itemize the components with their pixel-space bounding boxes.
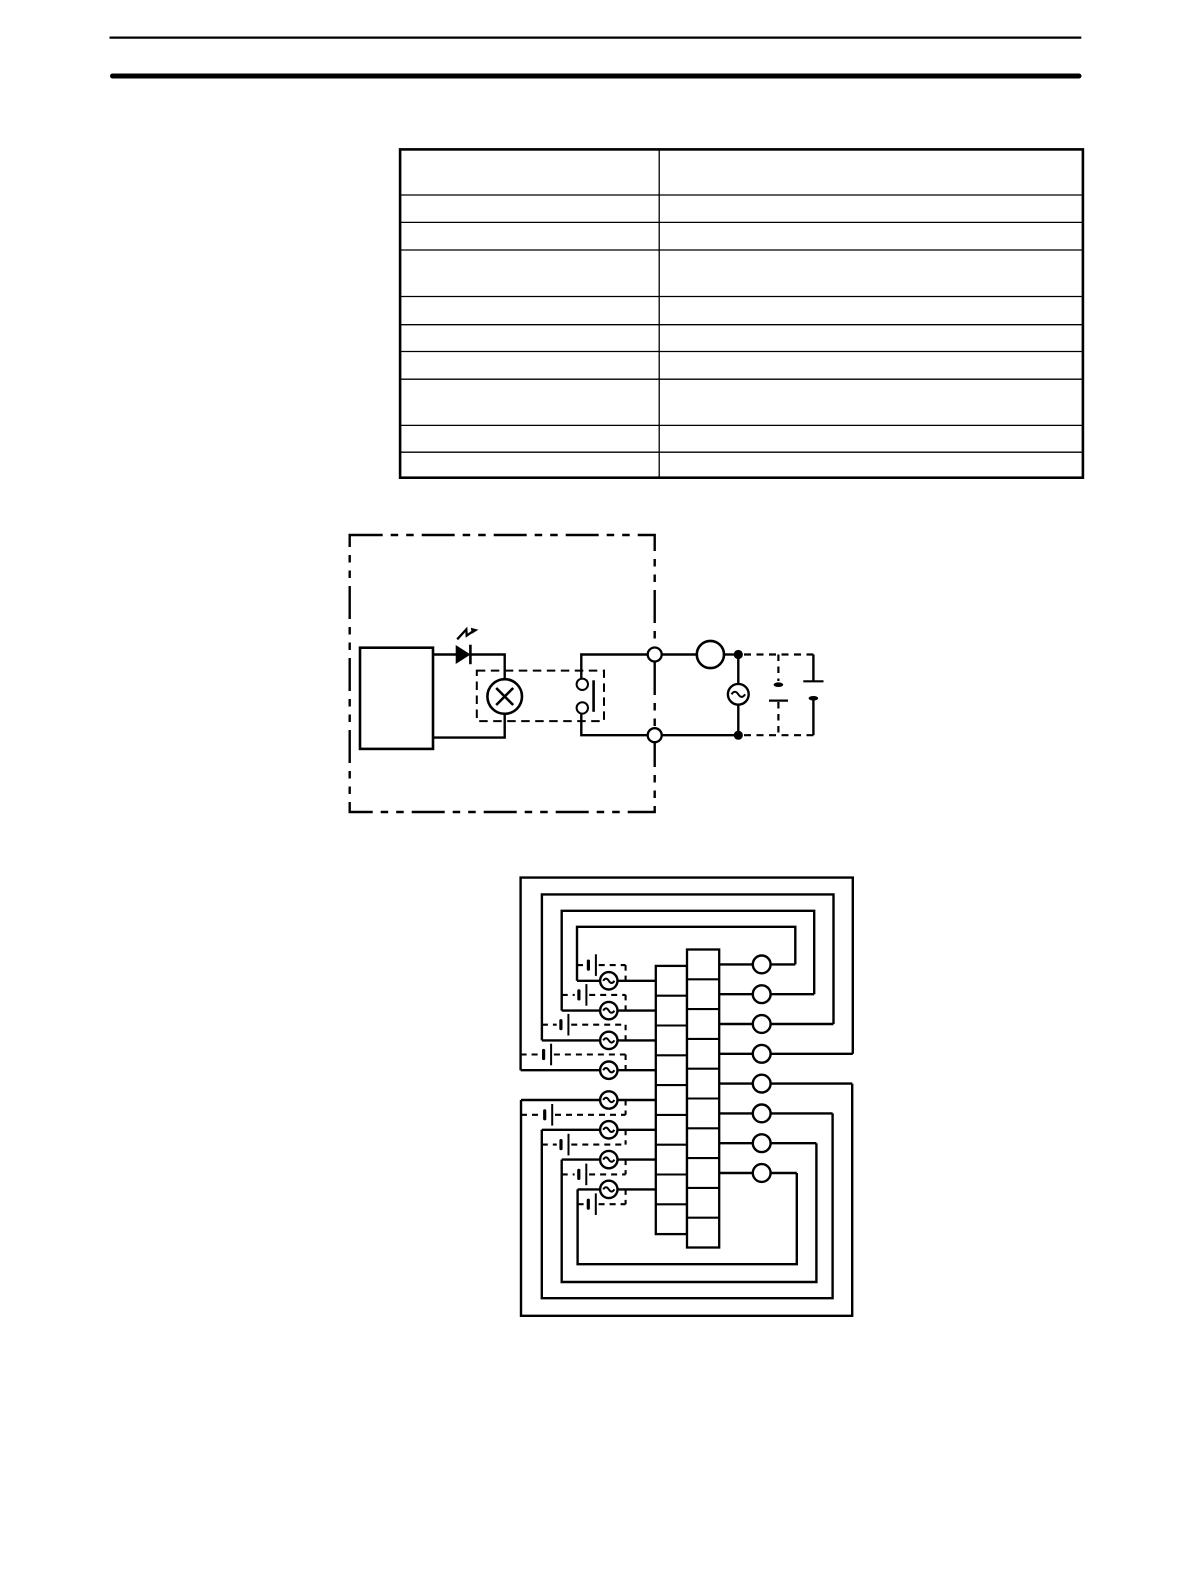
header thin rule — [110, 36, 1082, 38]
DC battery option circuit 5 — [521, 1100, 626, 1126]
wire: LED cathode right then down to lamp — [470, 655, 505, 680]
AC source circuit 5 — [600, 1091, 617, 1108]
wire: contact lower lead — [581, 714, 648, 736]
wire: top terminal to load — [655, 653, 697, 655]
relay contact — [577, 679, 594, 714]
junction top — [734, 650, 743, 659]
load circuit 5 — [753, 1075, 771, 1093]
DC battery option circuit 6 — [542, 1130, 626, 1156]
wire: block to LED anode — [433, 653, 457, 655]
load circuit 8 — [753, 1164, 771, 1182]
junction bottom — [734, 731, 743, 740]
wire: dashed bottom to DC option — [744, 734, 813, 736]
wire: AC source branch vertical — [737, 655, 739, 736]
DC battery option circuit 4 — [521, 1044, 626, 1071]
AC source circuit 6 — [600, 1121, 617, 1138]
output terminal upper — [648, 648, 662, 662]
header thick rule — [113, 74, 1080, 79]
LED light arrow — [457, 628, 478, 640]
relay coil (circle with X) — [487, 679, 522, 714]
load circuit 7 — [753, 1134, 771, 1152]
relay section dashed box — [477, 671, 604, 722]
terminal block right column — [687, 950, 719, 1248]
wire loop circuit 6 — [542, 1113, 833, 1298]
AC source circuit 8 — [600, 1181, 617, 1198]
AC source circuit 1 — [600, 972, 617, 989]
DC battery option circuit 7 — [562, 1160, 626, 1186]
wire: lamp bottom down and left to block — [433, 714, 505, 738]
DC battery option circuit 3 — [542, 1014, 626, 1041]
internal circuit boundary (dash-dot box) — [350, 535, 655, 812]
terminal block left column — [656, 966, 687, 1234]
load L — [697, 641, 724, 668]
driver circuit block — [360, 648, 433, 749]
wire: dashed top to DC option — [744, 653, 813, 655]
AC supply source — [728, 684, 749, 705]
AC source circuit 2 — [600, 1002, 617, 1019]
DC battery option circuit 2 — [562, 984, 626, 1011]
DC battery option (dashed branch) — [769, 655, 788, 736]
DC battery right — [803, 655, 823, 736]
wire loop circuit 5 — [521, 1084, 852, 1316]
load circuit 3 — [753, 1015, 771, 1033]
LED indicator D1 (diode) — [456, 645, 470, 665]
output terminal lower — [648, 728, 662, 742]
wire loop circuit 7 — [562, 1143, 817, 1282]
wire loop circuit 8 — [578, 1173, 797, 1264]
load circuit 2 — [753, 985, 771, 1003]
wire loop circuit 4 — [521, 878, 853, 1071]
wire loop circuit 3 — [542, 894, 834, 1040]
wire loop circuit 2 — [562, 911, 815, 1011]
AC source circuit 3 — [600, 1032, 617, 1049]
DC battery option circuit 8 — [578, 1189, 626, 1215]
wire: contact upper lead — [581, 655, 648, 679]
AC source circuit 4 — [600, 1062, 617, 1079]
wire: load to top junction — [724, 653, 738, 655]
wire: bottom terminal to bottom junction — [655, 734, 738, 736]
load circuit 4 — [753, 1045, 771, 1063]
AC source circuit 7 — [600, 1151, 617, 1168]
load circuit 1 — [753, 956, 771, 974]
load circuit 6 — [753, 1105, 771, 1123]
spec table — [400, 149, 1083, 477]
wire loop circuit 1 — [577, 927, 795, 981]
DC battery option circuit 1 — [577, 954, 626, 981]
